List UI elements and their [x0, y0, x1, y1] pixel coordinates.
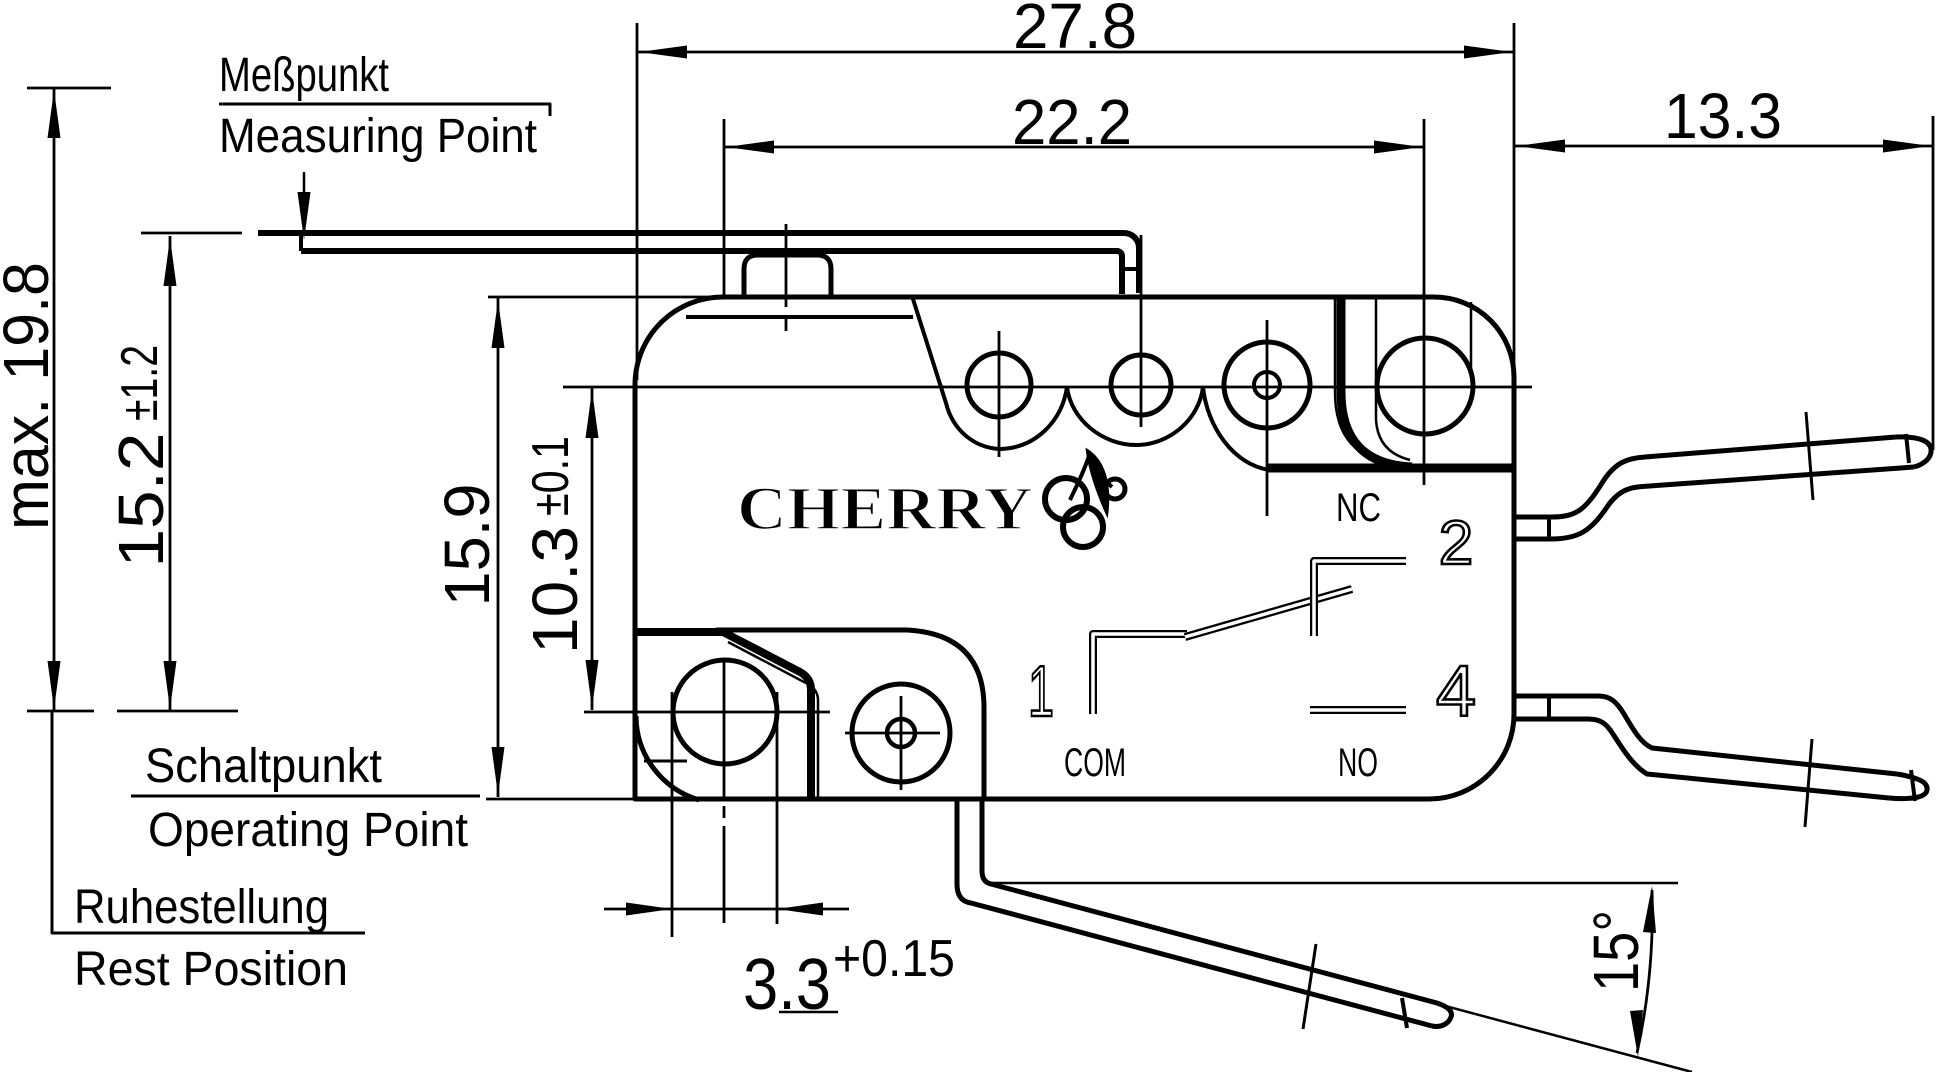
rivet 3 inner circle	[1254, 372, 1280, 398]
rivet circle 4	[1377, 338, 1473, 434]
arrowhead 15.9 down	[492, 747, 505, 795]
svg-text:13.3: 13.3	[1664, 80, 1782, 152]
arrowhead 15.2 up	[164, 238, 177, 286]
terminal pin 4 bottom edge	[1514, 719, 1889, 798]
dimension 15.2 line	[169, 236, 172, 711]
max 19.8 bottom tick	[27, 710, 94, 713]
Messpunkt underline	[219, 104, 550, 116]
terminal pin 1 tip	[1432, 1003, 1451, 1026]
arrowhead 3.3 left	[626, 903, 672, 916]
mounting hole vertical centerline	[723, 658, 726, 799]
dimension 27.8 line	[637, 51, 1514, 54]
svg-text:Rest Position: Rest Position	[74, 943, 348, 996]
housing inner top line	[686, 315, 913, 319]
svg-text:Measuring Point: Measuring Point	[219, 110, 537, 163]
dimension 27.8 right extension	[1513, 23, 1516, 378]
dimension max 19.8 line	[53, 88, 56, 711]
small rivet circle bottom	[852, 684, 950, 782]
svg-text:4: 4	[1436, 652, 1476, 732]
thick insert outline top-right	[1341, 297, 1412, 467]
dimension 22.2 left extension	[723, 119, 726, 299]
dimension 22.2 line	[724, 146, 1424, 149]
measuring point leader line	[303, 172, 306, 232]
15.9 top extension	[488, 296, 723, 299]
scallop arc around rivet 1	[1000, 387, 1067, 449]
arrowhead 13.3 left	[1517, 140, 1565, 153]
svg-text:1: 1	[1028, 652, 1054, 732]
small rivet inner circle	[887, 719, 915, 747]
dimension 10.3 line	[591, 388, 594, 710]
dimension 27.8 left extension	[636, 23, 639, 380]
lever arm bottom edge	[301, 251, 1122, 294]
svg-text:15.2: 15.2	[105, 433, 177, 568]
svg-text:Ruhestellung: Ruhestellung	[74, 881, 329, 934]
pin 4 stub tick	[1547, 696, 1551, 719]
svg-text:NO: NO	[1338, 741, 1378, 785]
CHERRY logo cherries icon	[1045, 450, 1125, 547]
terminal pin 1 right edge	[982, 799, 1437, 1003]
dimension 3.3 left extension	[671, 692, 674, 937]
rivet 1 vertical centerline	[998, 331, 1001, 457]
svg-text:COM: COM	[1064, 741, 1126, 785]
pin 2 break mark	[1806, 412, 1813, 500]
svg-text:max. 19.8: max. 19.8	[0, 262, 62, 530]
dimension 13.3 line	[1515, 145, 1933, 148]
internal contact COM line	[1093, 634, 1187, 714]
terminal pin 4 tip	[1889, 774, 1927, 799]
mounting hole horizontal centerline	[584, 711, 830, 714]
arrowhead 15.9 up	[492, 300, 505, 348]
pin 1 tip tick	[1402, 998, 1407, 1028]
arrowhead max19.8 down	[48, 661, 61, 709]
svg-text:27.8: 27.8	[1013, 0, 1137, 62]
rivet circle 1	[967, 353, 1031, 417]
max 19.8 top tick	[27, 87, 111, 90]
rivet 2 vertical centerline	[1140, 235, 1143, 427]
dimension 22.2 right extension	[1423, 119, 1426, 485]
lever arm tip end	[299, 233, 303, 251]
arrowhead max19.8 up	[48, 90, 61, 138]
Ruhestellung underline and leader	[52, 711, 365, 933]
boss top line	[716, 628, 907, 633]
arrowhead measuring point leader	[298, 192, 311, 240]
svg-text:10.3: 10.3	[519, 526, 591, 654]
horizontal centerline through rivets	[563, 386, 1532, 389]
rivet circle 3	[1224, 342, 1310, 428]
pin 4 break mark	[1805, 739, 1812, 827]
pin 2 tip tick	[1906, 434, 1909, 463]
inner vertical line right of rivet 4	[1470, 302, 1473, 377]
lever bent end connector	[1122, 267, 1139, 271]
plunger centerline	[785, 224, 788, 307]
arrowhead 10.3 down	[586, 660, 599, 708]
internal contact NC line	[1314, 561, 1406, 636]
svg-text:15°: 15°	[1580, 910, 1652, 992]
svg-text:Operating Point: Operating Point	[148, 804, 468, 857]
internal contact NO line	[1310, 706, 1406, 714]
inner vertical line left of rivet 4	[1376, 297, 1410, 460]
svg-text:CHERRY: CHERRY	[737, 476, 1033, 543]
dimension 3.3 right extension	[776, 692, 779, 924]
svg-text:3.3: 3.3	[743, 945, 831, 1025]
arrowhead 3.3 right	[777, 903, 823, 916]
hole centerline dashes below body	[723, 806, 726, 923]
dimension 13.3 right extension	[1932, 116, 1935, 450]
Schaltpunkt underline	[131, 795, 480, 798]
15.2 top tick	[141, 232, 242, 235]
scallop arc around rivet 2	[1067, 387, 1203, 445]
arrowhead 22.2 right	[1374, 141, 1422, 154]
svg-text:22.2: 22.2	[1012, 86, 1132, 158]
boss corner arc	[907, 630, 984, 799]
housing slant line	[913, 299, 1000, 449]
arrowhead 15deg top	[1643, 886, 1656, 933]
rivet circle 2	[1111, 355, 1171, 415]
arrowhead 22.2 left	[726, 141, 774, 154]
15 degree arc	[1637, 890, 1652, 1053]
pin 1 break mark	[1303, 944, 1316, 1029]
small rivet horizontal centerline	[845, 732, 940, 735]
dimension 3.3 line	[604, 908, 849, 911]
15.9 bottom extension	[486, 798, 637, 801]
thick pocket outline bottom-left	[635, 632, 811, 799]
mounting hole bottom-left	[673, 660, 777, 764]
plunger	[744, 255, 831, 297]
15 degree slant line	[1240, 951, 1692, 1072]
svg-text:NC: NC	[1336, 486, 1381, 530]
arrowhead 13.3 right	[1883, 140, 1931, 153]
thin inner line bottom-left pocket	[728, 642, 818, 799]
lever arm top edge	[258, 233, 1139, 293]
svg-text:15.9: 15.9	[431, 484, 503, 607]
svg-text:Meßpunkt: Meßpunkt	[219, 49, 389, 102]
svg-text:±1.2: ±1.2	[111, 345, 169, 421]
scallop arc around rivet 3	[1203, 387, 1270, 470]
terminal pin 1 left edge	[957, 799, 1432, 1026]
thin inner arc top-right insert	[1335, 297, 1405, 464]
internal contact blade	[1185, 589, 1352, 637]
tick left of mounting hole	[644, 760, 687, 763]
terminal pin 4 top edge	[1514, 696, 1897, 774]
arrowhead 15.2 down	[164, 661, 177, 709]
rivet 3 vertical centerline	[1266, 320, 1269, 516]
arrowhead 27.8 left	[639, 46, 687, 59]
3.3 underline	[779, 1011, 838, 1014]
terminal pin 2 bottom edge	[1514, 467, 1914, 539]
15.2 bottom tick	[117, 710, 238, 713]
svg-text:Schaltpunkt: Schaltpunkt	[145, 740, 382, 793]
svg-text:+0.15: +0.15	[833, 930, 955, 988]
plunger centerline dash	[785, 317, 788, 331]
arrowhead 27.8 right	[1464, 46, 1512, 59]
svg-text:2: 2	[1439, 509, 1473, 578]
small rivet vertical centerline	[900, 696, 903, 790]
arrowhead 10.3 up	[586, 390, 599, 438]
terminal pin 2 top edge	[1514, 437, 1896, 517]
svg-text:±0.1: ±0.1	[522, 436, 580, 516]
thick insert bottom line top-right	[1266, 464, 1514, 473]
switch body outline	[635, 297, 1514, 799]
boss arc around mounting hole	[636, 716, 699, 800]
arrowhead 15deg bottom	[1630, 1010, 1643, 1057]
15 degree reference line	[985, 882, 1678, 885]
pin 2 stub tick	[1547, 517, 1551, 539]
terminal pin 2 tip	[1896, 437, 1931, 467]
dimension 15.9 line	[497, 298, 500, 797]
pin 4 tip tick	[1911, 770, 1915, 801]
